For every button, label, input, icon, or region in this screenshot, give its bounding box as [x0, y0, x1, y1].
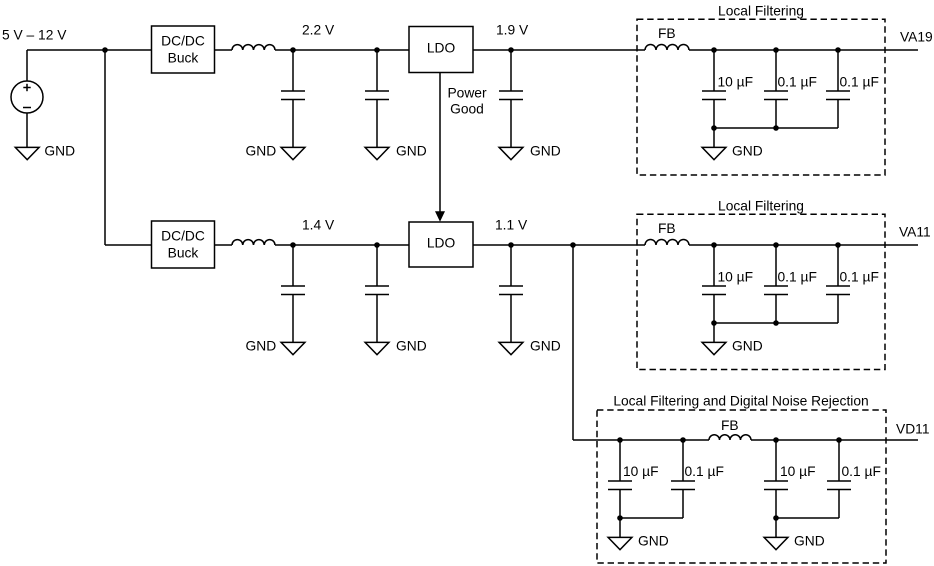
capacitor C2 — [365, 50, 389, 147]
node filter2 cap C12 — [835, 242, 841, 248]
wire bus to buck2 — [105, 244, 152, 246]
svg-text:GND: GND — [732, 144, 763, 159]
node filter2 cap C10 — [711, 242, 717, 248]
node filter1 cap C5 — [773, 47, 779, 53]
svg-text:Power: Power — [447, 86, 487, 101]
wire FB1 to VA19 — [689, 49, 918, 51]
wire filter3 left ground bus — [620, 517, 683, 519]
svg-text:GND: GND — [396, 339, 427, 354]
wire filter2 bus to ground — [713, 323, 715, 342]
node filter3 bus C13 — [617, 515, 623, 521]
node 1.9V rail cap C3 — [508, 47, 514, 53]
svg-text:GND: GND — [638, 534, 669, 549]
capacitor C15 10uF — [764, 440, 816, 518]
capacitor C6 0.1uF — [826, 50, 879, 128]
capacitor C16 0.1uF — [827, 440, 881, 518]
svg-text:10 µF: 10 µF — [718, 270, 754, 285]
ground C3 — [499, 144, 561, 160]
node filter3 cap C13 — [617, 437, 623, 443]
label VA11 — [899, 225, 931, 240]
svg-text:LDO: LDO — [427, 236, 456, 251]
LDO regulator U4 — [409, 222, 473, 267]
svg-text:LDO: LDO — [427, 41, 456, 56]
node filter1 bus C5 — [773, 125, 779, 131]
capacitor C3 — [499, 50, 523, 147]
ground filter3 right — [764, 534, 825, 550]
label VD11 — [896, 422, 930, 437]
ferrite bead FB3 — [709, 418, 751, 440]
wire filter3 right ground bus — [776, 517, 839, 519]
svg-text:VD11: VD11 — [896, 422, 930, 437]
svg-text:DC/DC: DC/DC — [161, 34, 205, 49]
node filter2 cap C11 — [773, 242, 779, 248]
svg-text:GND: GND — [246, 339, 277, 354]
ground C7 — [246, 339, 305, 355]
ferrite bead FB2 — [645, 221, 689, 245]
svg-text:2.2 V: 2.2 V — [302, 23, 335, 38]
svg-text:GND: GND — [44, 144, 75, 159]
svg-text:FB: FB — [658, 221, 676, 236]
capacitor C7 — [281, 245, 305, 342]
dashed box Local Filtering 1 — [637, 4, 885, 176]
svg-text:0.1 µF: 0.1 µF — [840, 75, 879, 90]
node VD11 branch junction — [570, 242, 576, 248]
inductor L1 — [232, 45, 275, 50]
ground filter1 — [702, 144, 763, 160]
node input junction — [102, 47, 108, 53]
svg-text:Buck: Buck — [168, 51, 199, 66]
wire input bus vertical — [104, 50, 106, 245]
wire filter1 ground bus — [714, 127, 838, 129]
svg-text:Good: Good — [450, 102, 484, 117]
wire filter3 right bus to ground — [775, 518, 777, 537]
wire branch into digital filter — [573, 439, 709, 441]
svg-text:FB: FB — [721, 418, 739, 433]
node filter1 cap C4 — [711, 47, 717, 53]
label 1.9 V — [496, 23, 529, 38]
wire L1 to LDO1 — [275, 49, 409, 51]
dashed box Local Filtering and Digital Noise Rejection — [597, 394, 886, 564]
wire LDO1 to filter box 1 — [473, 49, 645, 51]
dashed box Local Filtering 2 — [637, 199, 885, 370]
svg-text:GND: GND — [530, 144, 561, 159]
node filter3 cap C14 — [680, 437, 686, 443]
node filter3 cap C15 — [773, 437, 779, 443]
arrowhead power good — [435, 211, 445, 222]
svg-text:0.1 µF: 0.1 µF — [842, 464, 881, 479]
ground filter3 left — [608, 534, 669, 550]
svg-text:VA19: VA19 — [900, 30, 933, 45]
wire input to buck1 — [27, 49, 152, 51]
capacitor C11 0.1uF — [764, 245, 817, 323]
node filter3 cap C16 — [836, 437, 842, 443]
label 1.1 V — [495, 218, 528, 233]
label 2.2 V — [302, 23, 335, 38]
node 1.1V rail cap C9 — [508, 242, 514, 248]
wire filter1 bus to ground — [713, 128, 715, 147]
node 2.2V rail cap C1 — [290, 47, 296, 53]
svg-text:FB: FB — [658, 26, 676, 41]
DC/DC Buck converter U3 — [152, 221, 215, 268]
capacitor C5 0.1uF — [764, 50, 817, 128]
capacitor C10 10uF — [702, 245, 753, 323]
node 2.2V rail cap C2 — [374, 47, 380, 53]
node 1.4V rail cap C8 — [374, 242, 380, 248]
label 1.4 V — [302, 218, 335, 233]
capacitor C14 0.1uF — [671, 440, 724, 518]
svg-text:5 V – 12 V: 5 V – 12 V — [2, 28, 67, 43]
svg-text:0.1 µF: 0.1 µF — [778, 270, 817, 285]
ground C1 — [246, 144, 305, 160]
svg-text:1.1 V: 1.1 V — [495, 218, 528, 233]
label VA19 — [900, 30, 933, 45]
wire FB3 to VD11 — [751, 439, 918, 441]
svg-text:VA11: VA11 — [899, 225, 931, 240]
svg-text:1.9 V: 1.9 V — [496, 23, 529, 38]
svg-text:Buck: Buck — [168, 246, 199, 261]
wire filter2 ground bus — [714, 322, 838, 324]
label Power Good — [447, 86, 487, 117]
ground C2 — [365, 144, 427, 160]
wire FB2 to VA11 — [689, 244, 918, 246]
capacitor C9 — [499, 245, 523, 342]
svg-text:10 µF: 10 µF — [718, 75, 754, 90]
svg-text:1.4 V: 1.4 V — [302, 218, 335, 233]
capacitor C12 0.1uF — [826, 245, 879, 323]
node filter1 bus C4 — [711, 125, 717, 131]
node filter3 bus C15 — [773, 515, 779, 521]
svg-text:DC/DC: DC/DC — [161, 229, 205, 244]
svg-text:Local Filtering: Local Filtering — [718, 4, 804, 19]
wire buck2 to L2 — [215, 244, 233, 246]
svg-text:GND: GND — [794, 534, 825, 549]
capacitor C1 — [281, 50, 305, 147]
DC/DC Buck converter U1 — [152, 26, 215, 73]
svg-text:0.1 µF: 0.1 µF — [840, 270, 879, 285]
wire branch to digital filter — [572, 245, 574, 440]
node filter2 bus C11 — [773, 320, 779, 326]
capacitor C8 — [365, 245, 389, 342]
wire L2 to LDO2 — [275, 244, 409, 246]
svg-text:Local Filtering: Local Filtering — [718, 199, 804, 214]
ground filter2 — [702, 339, 763, 355]
capacitor C4 10uF — [702, 50, 753, 128]
wire filter3 left bus to ground — [619, 518, 621, 537]
svg-text:GND: GND — [246, 144, 277, 159]
svg-text:GND: GND — [396, 144, 427, 159]
capacitor C13 10uF — [608, 440, 659, 518]
svg-text:Local Filtering and Digital No: Local Filtering and Digital Noise Reject… — [613, 394, 868, 409]
LDO regulator U2 — [409, 27, 473, 73]
ground at source — [15, 144, 75, 160]
wire power good signal — [439, 73, 441, 214]
svg-text:10 µF: 10 µF — [623, 464, 659, 479]
svg-text:0.1 µF: 0.1 µF — [778, 75, 817, 90]
svg-text:0.1 µF: 0.1 µF — [685, 464, 724, 479]
inductor L2 — [232, 240, 275, 245]
ground C8 — [365, 339, 427, 355]
wire LDO2 to filter box 2 — [473, 244, 645, 246]
ferrite bead FB1 — [645, 26, 689, 50]
voltage source V1 — [11, 50, 43, 147]
svg-text:GND: GND — [732, 339, 763, 354]
wire buck1 to L1 — [215, 49, 233, 51]
svg-text:GND: GND — [530, 339, 561, 354]
node filter1 cap C6 — [835, 47, 841, 53]
node 1.4V rail cap C7 — [290, 242, 296, 248]
ground C9 — [499, 339, 561, 355]
svg-text:10 µF: 10 µF — [780, 464, 816, 479]
label 5 V - 12 V input — [2, 28, 67, 43]
node filter2 bus C10 — [711, 320, 717, 326]
